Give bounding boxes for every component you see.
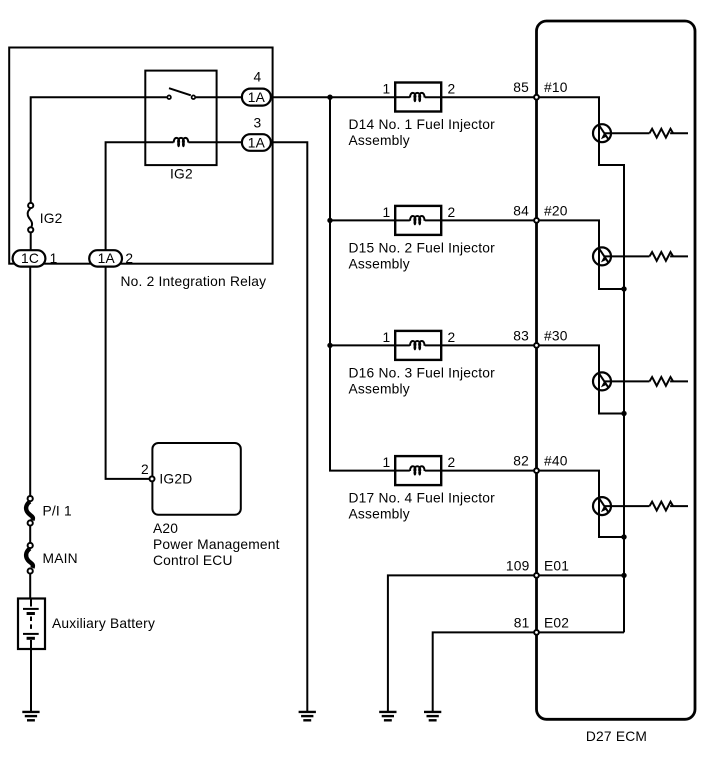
svg-text:1A: 1A	[248, 90, 266, 105]
pin 82 circle	[534, 468, 539, 473]
injector D17 box	[395, 456, 441, 485]
wire bus to D15	[330, 219, 395, 221]
wire Q1 base to resistor	[604, 132, 650, 134]
wire Q1 emitter to bus	[599, 142, 624, 632]
svg-text:#40: #40	[544, 454, 568, 469]
svg-text:4: 4	[254, 70, 262, 85]
wire Q2 base to resistor	[604, 255, 650, 257]
relay coil IG2	[174, 138, 188, 147]
svg-text:1: 1	[383, 82, 391, 97]
node D16 feed	[327, 343, 332, 348]
wire battery feed below relay	[29, 267, 31, 496]
wire D14 inside	[395, 96, 410, 98]
wire injector feed bus	[330, 97, 395, 470]
svg-text:IG2: IG2	[40, 211, 63, 226]
svg-text:#10: #10	[544, 80, 568, 95]
pill 1A pin4	[242, 89, 271, 106]
svg-text:2: 2	[125, 251, 133, 266]
injector D15 coil	[410, 216, 424, 225]
svg-text:#20: #20	[544, 203, 568, 218]
fusible link P/I 1	[28, 496, 33, 501]
injector D17 coil	[410, 466, 424, 475]
svg-text:2: 2	[448, 205, 456, 220]
svg-text:84: 84	[513, 203, 529, 218]
svg-text:2: 2	[448, 330, 456, 345]
relay box No.2 Integration Relay	[9, 48, 272, 264]
svg-text:1: 1	[383, 330, 391, 345]
wire D14 to ECM	[441, 96, 536, 98]
svg-text:MAIN: MAIN	[43, 551, 78, 566]
injector D15 box	[395, 206, 441, 235]
wire D16 inside	[395, 344, 410, 346]
svg-text:2: 2	[448, 82, 456, 97]
node E01 junction	[621, 573, 626, 578]
wire pin3 to ground	[271, 142, 307, 711]
svg-text:81: 81	[514, 615, 530, 630]
svg-text:E01: E01	[544, 558, 569, 573]
resistor R4	[650, 502, 674, 511]
svg-text:Assembly: Assembly	[349, 133, 410, 148]
node Q3 emitter junction	[621, 411, 626, 416]
wire ECM pin82 to Q4	[537, 471, 600, 498]
svg-text:1: 1	[50, 251, 58, 266]
svg-text:IG2D: IG2D	[159, 472, 192, 487]
node Q4 emitter junction	[621, 534, 626, 539]
wire Q3 emitter to bus	[599, 390, 624, 413]
injector D16 box	[395, 331, 441, 360]
svg-text:Control ECU: Control ECU	[153, 553, 233, 568]
wire pin4 to D14	[271, 96, 395, 98]
svg-text:D17 No. 4 Fuel Injector: D17 No. 4 Fuel Injector	[349, 491, 496, 506]
wire D15 inside	[395, 219, 410, 221]
wire Q3 base to resistor	[604, 380, 650, 382]
node Q2 emitter junction	[621, 286, 626, 291]
wire R3	[670, 380, 688, 382]
wire R2	[670, 255, 688, 257]
wire ECM pin83 to Q3	[537, 345, 600, 372]
svg-text:D27 ECM: D27 ECM	[586, 729, 647, 744]
svg-text:D14 No. 1 Fuel Injector: D14 No. 1 Fuel Injector	[349, 117, 496, 132]
wire Q4 emitter to bus	[599, 515, 624, 537]
pin circle IG2D	[150, 476, 155, 481]
wire ECM pin84 to Q2	[537, 220, 600, 247]
svg-text:2: 2	[448, 455, 456, 470]
ground battery	[22, 712, 39, 720]
wire between fuses	[29, 526, 31, 542]
injector D14 box	[395, 83, 441, 112]
fuse IG2	[28, 203, 33, 208]
wire switch row	[31, 97, 167, 202]
pill 1A pin2	[89, 250, 122, 266]
pin 85 circle	[534, 95, 539, 100]
ground E02	[424, 712, 441, 720]
wire E02 to ground	[433, 632, 537, 711]
pill 1C pin	[13, 250, 46, 266]
ECM box D27	[537, 21, 696, 719]
wire fuse to battery	[29, 574, 31, 598]
svg-text:Power Management: Power Management	[153, 537, 280, 552]
wire pin81 E02 inside	[537, 631, 625, 633]
wire D17 inside	[395, 470, 410, 472]
resistor R3	[650, 377, 674, 386]
wire D17 to ECM	[441, 470, 536, 472]
transistor Q3	[593, 372, 611, 390]
resistor R1	[650, 129, 674, 138]
svg-text:IG2: IG2	[170, 167, 193, 182]
wire R1	[670, 132, 688, 134]
transistor Q4	[593, 497, 611, 515]
wire Q2 emitter to bus	[599, 265, 624, 289]
svg-text:109: 109	[506, 558, 530, 573]
wire E01 to ground	[388, 575, 537, 711]
wire fuse to pill 1C	[30, 233, 32, 250]
svg-text:1C: 1C	[21, 251, 39, 266]
svg-text:1A: 1A	[98, 251, 116, 266]
svg-text:P/I 1: P/I 1	[43, 504, 72, 519]
switch contacts in IG2 relay	[167, 95, 171, 99]
svg-text:D15 No. 2 Fuel Injector: D15 No. 2 Fuel Injector	[349, 240, 496, 255]
wire pin109 E01 inside	[537, 574, 625, 576]
svg-text:A20: A20	[153, 521, 178, 536]
A20 ECU box	[152, 443, 240, 515]
svg-text:3: 3	[254, 116, 262, 131]
node injector feed bus	[327, 95, 332, 100]
wire Q4 base to resistor	[604, 505, 650, 507]
svg-text:85: 85	[513, 80, 529, 95]
svg-text:No. 2 Integration Relay: No. 2 Integration Relay	[121, 274, 267, 289]
resistor R2	[650, 252, 674, 261]
pin 81 circle	[534, 630, 539, 635]
svg-text:1: 1	[383, 205, 391, 220]
svg-text:83: 83	[513, 328, 529, 343]
wire pin2 to IG2D	[106, 267, 152, 479]
svg-text:#30: #30	[544, 328, 568, 343]
wire D16 to ECM	[441, 344, 536, 346]
wire R4	[670, 505, 688, 507]
ground E01	[379, 712, 396, 720]
svg-text:1A: 1A	[248, 135, 266, 150]
wire coil row	[106, 142, 174, 250]
battery Auxiliary Battery	[18, 599, 45, 650]
pill 1A pin3	[242, 134, 271, 151]
pin 84 circle	[534, 218, 539, 223]
wire bus to D16	[330, 344, 395, 346]
svg-text:2: 2	[141, 462, 149, 477]
pin 109 circle	[534, 573, 539, 578]
transistor Q2	[593, 247, 611, 265]
ground pin3	[299, 712, 316, 720]
relay IG2 inner box	[145, 71, 216, 166]
svg-text:Assembly: Assembly	[349, 256, 410, 271]
svg-text:82: 82	[513, 454, 529, 469]
fusible link MAIN	[28, 543, 33, 548]
injector D14 coil	[410, 93, 424, 102]
wire battery to ground	[30, 649, 32, 711]
svg-text:1: 1	[383, 455, 391, 470]
svg-text:Assembly: Assembly	[349, 507, 410, 522]
node D15 feed	[327, 218, 332, 223]
injector D16 coil	[410, 341, 424, 350]
transistor Q1	[593, 124, 611, 142]
pin 83 circle	[534, 343, 539, 348]
svg-text:D16 No. 3 Fuel Injector: D16 No. 3 Fuel Injector	[349, 365, 496, 380]
wire D15 to ECM	[441, 219, 536, 221]
switch blade	[169, 88, 191, 95]
wire ECM pin85 to Q1	[537, 97, 600, 124]
svg-text:Assembly: Assembly	[349, 381, 410, 396]
svg-text:Auxiliary Battery: Auxiliary Battery	[52, 616, 155, 631]
svg-text:E02: E02	[544, 615, 569, 630]
